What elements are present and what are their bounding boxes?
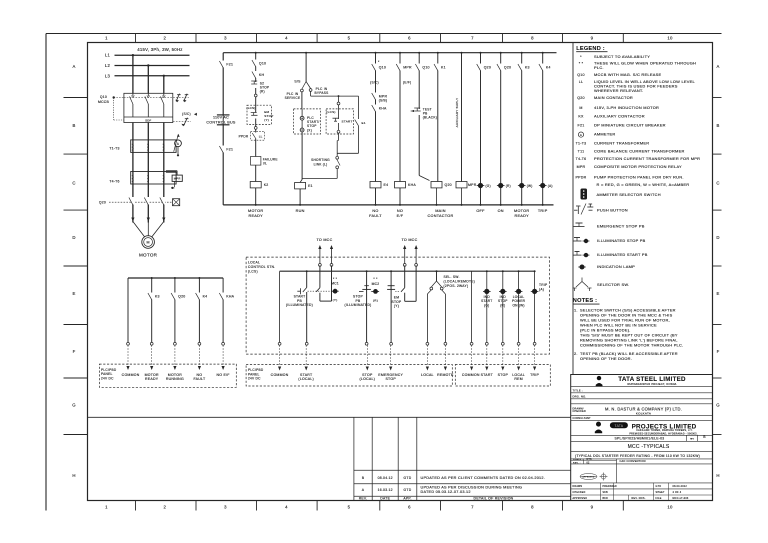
svg-text:Q10: Q10 <box>259 62 266 66</box>
svg-text:415V, 3Ph, 3W, 50Hz: 415V, 3Ph, 3W, 50Hz <box>137 47 182 52</box>
MCCB trip releases (S/C) <box>124 97 189 99</box>
svg-text:SUBJECT TO AVAILABILITY: SUBJECT TO AVAILABILITY <box>594 54 650 59</box>
svg-text:MOTOR: MOTOR <box>514 209 529 213</box>
svg-text:KHA: KHA <box>408 183 416 187</box>
svg-text:SKB: SKB <box>603 492 609 494</box>
title block lower cells <box>571 459 617 461</box>
svg-text:CHECKED: CHECKED <box>573 410 586 413</box>
svg-text:(LCS): (LCS) <box>246 106 255 110</box>
svg-text:9: 9 <box>591 504 594 509</box>
svg-text:08.04.12: 08.04.12 <box>378 476 393 480</box>
svg-text:rev: rev <box>690 436 695 440</box>
svg-text:NO: NO <box>372 209 378 213</box>
svg-text:SHEET: SHEET <box>656 491 666 494</box>
PLC/PBD panel box (LCS left) <box>246 365 452 387</box>
svg-text:7: 7 <box>471 504 474 509</box>
svg-text:(LOCAL): (LOCAL) <box>298 377 314 381</box>
svg-text:CONTROL BUS: CONTROL BUS <box>206 121 236 125</box>
Q20 coil box <box>173 199 180 206</box>
svg-text:SDF: SDF <box>145 118 151 122</box>
svg-text:F21: F21 <box>226 63 233 67</box>
svg-text:E4: E4 <box>384 183 389 187</box>
svg-text:(A): (A) <box>539 288 544 292</box>
svg-text:5: 5 <box>348 36 351 41</box>
svg-text:T4-T6: T4-T6 <box>576 157 587 161</box>
control bus top <box>223 52 556 54</box>
run branch left wire to coil <box>301 132 303 180</box>
svg-text:9: 9 <box>591 36 594 41</box>
svg-text:A: A <box>716 64 719 69</box>
svg-text:(G): (G) <box>486 184 491 188</box>
svg-text:MCC -TYPICALS: MCC -TYPICALS <box>628 444 670 450</box>
svg-text:OFF: OFF <box>476 209 485 213</box>
svg-text:MOTOR: MOTOR <box>139 253 158 258</box>
svg-text:REV. :: REV. : <box>573 462 581 464</box>
motor M <box>142 236 155 249</box>
svg-text:KX: KX <box>578 115 584 119</box>
svg-text:1.: 1. <box>574 307 578 312</box>
svg-text:REV.: REV. <box>359 497 368 501</box>
svg-text:6: 6 <box>408 36 411 41</box>
svg-text:Q20: Q20 <box>577 96 585 100</box>
svg-text:KHA: KHA <box>379 107 387 111</box>
svg-text:NOTES :: NOTES : <box>573 298 597 304</box>
svg-text:SELECTOR SW.: SELECTOR SW. <box>597 282 629 287</box>
svg-text:PLC.: PLC. <box>594 65 604 70</box>
svg-text:(Y): (Y) <box>394 304 399 308</box>
stop pb illuminated <box>366 270 368 272</box>
branch E4 no fault <box>375 53 377 205</box>
svg-text:TO MCC: TO MCC <box>402 238 418 242</box>
svg-text:MC2: MC2 <box>372 282 380 286</box>
svg-text:MCC-LT-003: MCC-LT-003 <box>673 497 689 500</box>
svg-text:(LOCAL/REMOTE): (LOCAL/REMOTE) <box>444 280 476 284</box>
svg-text:TRIP: TRIP <box>530 373 539 377</box>
svg-text:SPL/SP/023/HBM/01/ELE-03: SPL/SP/023/HBM/01/ELE-03 <box>615 436 665 440</box>
LCS bus <box>280 270 535 272</box>
svg-text:ON (W): ON (W) <box>512 303 524 307</box>
approval stamp <box>580 473 608 481</box>
svg-text:Q10: Q10 <box>379 66 386 70</box>
svg-text:AMMETER: AMMETER <box>594 132 615 137</box>
svg-text:T1-T3: T1-T3 <box>576 142 587 146</box>
svg-text:ILLUMINATED STOP PB: ILLUMINATED STOP PB <box>597 238 646 243</box>
svg-text:S/S: S/S <box>294 80 301 84</box>
svg-text:TRIP: TRIP <box>539 283 548 287</box>
stop pb S2 <box>255 82 257 88</box>
svg-text:24V DC: 24V DC <box>101 376 114 380</box>
lamp MC2 <box>372 289 379 294</box>
svg-text:M: M <box>579 106 582 110</box>
svg-text:MCCB: MCCB <box>98 100 109 104</box>
svg-text:LOCAL: LOCAL <box>248 261 260 265</box>
wires MCCB to CTs <box>132 123 134 223</box>
svg-text:(ILLUMINATED): (ILLUMINATED) <box>344 303 371 307</box>
legend illuminated start symbol <box>573 254 582 256</box>
coil Q20 main contactor <box>431 182 442 188</box>
svg-text:COMMON: COMMON <box>122 373 140 377</box>
branch E1 run with S/S selector <box>305 53 307 82</box>
svg-text:MPR: MPR <box>577 165 586 169</box>
svg-text:DATED 05.03.12-07.03.12: DATED 05.03.12-07.03.12 <box>421 490 471 494</box>
svg-text:CHECKED: CHECKED <box>573 492 586 494</box>
svg-text:DP MINIATURE CIRCUIT BREAKER: DP MINIATURE CIRCUIT BREAKER <box>594 123 666 128</box>
ladder branch common <box>127 278 129 343</box>
ladder branch K3 <box>151 278 153 343</box>
legend push button symbol <box>574 209 578 211</box>
svg-text:GTD: GTD <box>404 488 412 492</box>
branch Q20 main contactor <box>418 53 420 176</box>
phase droppers <box>132 55 134 93</box>
svg-text:START: START <box>481 373 494 377</box>
svg-text:Q10: Q10 <box>577 73 585 77</box>
svg-text:DATE: DATE <box>380 497 390 501</box>
svg-text:2: 2 <box>163 504 166 509</box>
svg-text:7: 7 <box>471 36 474 41</box>
LCS terminal drops <box>279 345 281 366</box>
svg-text:K1: K1 <box>441 66 446 70</box>
svg-text:TATA STEEL LIMITED: TATA STEEL LIMITED <box>618 376 686 383</box>
svg-text:SCALE :: SCALE : <box>573 458 583 461</box>
svg-text:KHA: KHA <box>226 295 234 299</box>
selector switch local/remote <box>436 271 438 281</box>
svg-text:I/L: I/L <box>263 161 267 165</box>
svg-text:(LCS): (LCS) <box>248 270 258 274</box>
ladder branch Q20 <box>174 278 176 343</box>
feeder arrows to motor <box>131 218 134 222</box>
svg-text:(E/F): (E/F) <box>403 81 411 85</box>
svg-text:H: H <box>72 473 75 478</box>
svg-text:3: 3 <box>224 36 227 41</box>
test pb black <box>418 109 420 115</box>
breaker pole <box>132 93 134 96</box>
svg-text:(W): (W) <box>527 184 533 188</box>
svg-text:(X): (X) <box>307 128 312 132</box>
legend illuminated stop symbol <box>573 240 582 242</box>
PLC/PBD panel box (left) <box>99 364 236 387</box>
svg-text:COMMISSIONING OF THE MOTOR THR: COMMISSIONING OF THE MOTOR THROUGH PLC. <box>580 342 683 347</box>
svg-text:FILE: FILE <box>656 497 662 500</box>
svg-text:(ILLUMINATED): (ILLUMINATED) <box>286 303 313 307</box>
svg-text:NTS: NTS <box>587 459 593 461</box>
svg-text:(Y): (Y) <box>333 298 338 302</box>
svg-text:COMPOSITE MOTOR PROTECTION REL: COMPOSITE MOTOR PROTECTION RELAY <box>594 164 682 169</box>
ladder branch KHA <box>222 278 224 343</box>
separator line <box>88 416 571 418</box>
svg-text:COMMON: COMMON <box>271 373 289 377</box>
svg-text:MCCB WITH MAG. S/C RELEASE: MCCB WITH MAG. S/C RELEASE <box>594 72 661 77</box>
svg-text:TO MCC: TO MCC <box>317 238 333 242</box>
svg-text:MPR: MPR <box>403 66 412 70</box>
svg-text:2: 2 <box>163 36 166 41</box>
breaker pole <box>163 93 165 96</box>
svg-text:3: 3 <box>224 504 227 509</box>
revision table <box>353 417 355 500</box>
svg-text:STOP: STOP <box>498 373 509 377</box>
sheet outer border <box>45 34 47 511</box>
legend emergency stop symbol <box>574 226 585 228</box>
lamp branch TRIP <box>542 53 544 205</box>
svg-text:REV. NOS.: REV. NOS. <box>632 497 646 500</box>
svg-text:TRIP: TRIP <box>538 209 548 213</box>
svg-text:(G): (G) <box>484 303 489 307</box>
svg-text:BKD: BKD <box>603 498 609 500</box>
svg-text:T11: T11 <box>578 149 585 153</box>
svg-text:LOCAL: LOCAL <box>421 373 434 377</box>
lamp branch OFF <box>480 53 482 205</box>
svg-text:08.04.2012: 08.04.2012 <box>673 485 688 488</box>
svg-text:MAIN CONTACTOR: MAIN CONTACTOR <box>594 95 633 100</box>
svg-text:MOTOR: MOTOR <box>248 209 263 213</box>
svg-text:E1: E1 <box>308 184 313 188</box>
svg-text:APPROVED: APPROVED <box>573 497 588 500</box>
svg-text:MPR: MPR <box>468 183 477 187</box>
svg-text:AUXILIARY SUPLY: AUXILIARY SUPLY <box>455 98 459 128</box>
svg-text:MAIN: MAIN <box>435 209 446 213</box>
svg-text:(Y): (Y) <box>264 118 269 122</box>
svg-text:(BLACK): (BLACK) <box>423 116 437 120</box>
svg-text:RUPNARAINPUR PROJECT, DOSNA: RUPNARAINPUR PROJECT, DOSNA <box>627 383 676 386</box>
svg-text:SEL. SW.: SEL. SW. <box>444 275 460 279</box>
svg-text:MPR: MPR <box>174 177 181 181</box>
svg-text:C: C <box>72 181 75 186</box>
svg-text:APPROVED: APPROVED <box>583 476 595 479</box>
svg-text:F21: F21 <box>226 148 233 152</box>
svg-text:INDICATION LAMP: INDICATION LAMP <box>597 264 635 269</box>
svg-text:AUXILIARY CONTACTOR: AUXILIARY CONTACTOR <box>594 114 645 119</box>
start risers and seal loop <box>319 266 321 288</box>
svg-text:G: G <box>716 403 720 408</box>
svg-text:AMMETER SELECTOR SWITCH: AMMETER SELECTOR SWITCH <box>597 192 661 197</box>
svg-text:E: E <box>716 291 719 296</box>
svg-text:D: D <box>716 235 719 240</box>
svg-text:THESE WILL GLOW WHEN OPERATED: THESE WILL GLOW WHEN OPERATED THROUGH <box>594 61 696 66</box>
svg-text:C: C <box>716 181 719 186</box>
tata projects logo <box>596 422 601 427</box>
svg-text:A: A <box>580 133 582 137</box>
svg-text:CONSULTANT: CONSULTANT <box>573 417 592 420</box>
LCS indication lamps <box>471 271 473 342</box>
svg-text:6: 6 <box>408 504 411 509</box>
branch KHA no E/F <box>399 53 401 205</box>
svg-text:D: D <box>72 235 75 240</box>
svg-text:CORE BALANCE CURRENT TRANSFORM: CORE BALANCE CURRENT TRANSFORMER <box>594 148 685 153</box>
svg-text:B: B <box>716 123 719 128</box>
EM stop dashed box <box>247 105 271 124</box>
svg-text:10: 10 <box>667 36 673 41</box>
svg-text:PPDR: PPDR <box>239 135 249 139</box>
svg-text:EMERGENCY STOP PB: EMERGENCY STOP PB <box>597 224 645 229</box>
svg-text:* *: * * <box>579 62 584 66</box>
svg-text:DRG. NO.: DRG. NO. <box>573 394 587 398</box>
ladder branch K4 <box>198 278 200 343</box>
svg-text:K3: K3 <box>525 66 530 70</box>
svg-text:Q20: Q20 <box>178 295 185 299</box>
svg-text:(R): (R) <box>260 89 265 93</box>
LCS start dashed box <box>326 109 353 134</box>
svg-text:(LCS): (LCS) <box>326 110 335 114</box>
svg-text:GTD: GTD <box>656 485 662 488</box>
svg-text:L2: L2 <box>105 63 111 68</box>
svg-text:MC1: MC1 <box>331 282 339 286</box>
shorting link <box>338 133 340 140</box>
svg-text:REMOTE: REMOTE <box>437 373 454 377</box>
em stop pb <box>390 270 392 272</box>
PPDR LL contact box <box>251 131 265 140</box>
lamp branch ON <box>500 53 502 205</box>
svg-text:H: H <box>716 473 719 478</box>
svg-text:R = RED, G = GREEN, W = WHITE,: R = RED, G = GREEN, W = WHITE, A=AMBER <box>597 182 690 187</box>
svg-text:PPDR: PPDR <box>576 176 587 180</box>
legend ammeter symbol <box>578 132 583 137</box>
ammeter A <box>175 140 182 147</box>
svg-text:(S/B): (S/B) <box>379 99 388 103</box>
svg-text:L3: L3 <box>105 73 111 78</box>
svg-text:DETAIL OF REVISION: DETAIL OF REVISION <box>474 497 514 501</box>
svg-text:* *: * * <box>373 277 378 281</box>
svg-text:A: A <box>72 64 75 69</box>
svg-text:K2: K2 <box>264 183 269 187</box>
drawing frame <box>88 43 713 501</box>
svg-text:CONTACTOR: CONTACTOR <box>428 214 454 218</box>
branch MPR auxiliary supply <box>461 53 463 182</box>
coil E1 <box>295 183 306 189</box>
svg-text:K3: K3 <box>155 295 160 299</box>
svg-text:START: START <box>342 120 353 124</box>
svg-text:4: 4 <box>285 504 288 509</box>
svg-text:WHEREVER RELEVANT.: WHEREVER RELEVANT. <box>594 88 644 93</box>
PLC start/stop dashed box <box>301 92 303 109</box>
svg-text:02: 02 <box>587 462 591 464</box>
svg-text:K4: K4 <box>203 295 208 299</box>
legend box <box>572 43 574 375</box>
svg-text:RUNNING: RUNNING <box>166 377 184 381</box>
svg-text:Q10: Q10 <box>100 95 107 99</box>
svg-text:NO: NO <box>397 209 403 213</box>
svg-text:LL: LL <box>259 135 263 139</box>
svg-text:TITLE :: TITLE : <box>573 388 583 392</box>
svg-text:UPDATED AS PER DISCUSSION: UPDATED AS PER DISCUSSION DURING MEETING <box>421 486 523 490</box>
svg-text:TATA: TATA <box>615 424 624 428</box>
svg-text:B: B <box>72 123 75 128</box>
svg-text:PUMP PROTECTION PANEL FOR DRY: PUMP PROTECTION PANEL FOR DRY RUN. <box>594 175 684 180</box>
svg-text:COMMON: COMMON <box>462 373 480 377</box>
svg-text:PROTECTION CURRENT TRANSFORMER: PROTECTION CURRENT TRANSFORMER FOR MPR <box>594 156 700 161</box>
svg-text:K4: K4 <box>546 66 551 70</box>
svg-text:4: 4 <box>285 36 288 41</box>
svg-text:L1: L1 <box>105 53 111 58</box>
svg-text:(R): (R) <box>500 303 505 307</box>
svg-text:KOLKATA: KOLKATA <box>636 411 651 415</box>
svg-text:F21: F21 <box>578 124 585 128</box>
lamp MC1 <box>332 289 339 294</box>
svg-text:M: M <box>146 241 149 245</box>
svg-text:8: 8 <box>531 36 534 41</box>
svg-text:NO E/F: NO E/F <box>217 373 230 377</box>
svg-text:CONTROL STN.: CONTROL STN. <box>248 265 275 269</box>
PLC/PBD panel box (LCS right) <box>455 365 550 387</box>
title block <box>571 375 713 501</box>
branch K2 motor ready <box>255 53 257 205</box>
svg-text:KH: KH <box>259 73 265 77</box>
svg-text:FAULT: FAULT <box>193 377 205 381</box>
svg-text:STOP: STOP <box>385 377 396 381</box>
svg-text:(LOCAL): (LOCAL) <box>360 377 376 381</box>
svg-text:PUSH BUTTON: PUSH BUTTON <box>597 208 628 213</box>
svg-text:CURRENT TRANSFORMER: CURRENT TRANSFORMER <box>594 141 649 146</box>
svg-text:G: G <box>72 403 76 408</box>
start pb illuminated <box>306 270 308 272</box>
svg-text:E/F: E/F <box>397 214 404 218</box>
svg-text:CAD CONVENTION: CAD CONVENTION <box>620 460 646 463</box>
legend ammeter selector switch symbol <box>581 189 588 200</box>
svg-text:(S/C): (S/C) <box>182 112 191 116</box>
svg-text:UPDATED AS PER CLIENT COMM: UPDATED AS PER CLIENT COMMENTS DATED ON … <box>421 476 546 480</box>
em stop risers and loop <box>404 266 406 288</box>
svg-text:OPENING OF THE DOOR.: OPENING OF THE DOOR. <box>580 356 632 361</box>
svg-text:Q10: Q10 <box>422 66 429 70</box>
svg-text:10: 10 <box>667 504 673 509</box>
svg-text:(TYPICAL DOL STARTER FEEDER RA: (TYPICAL DOL STARTER FEEDER RATING - FRO… <box>575 454 700 458</box>
svg-text:LEGEND :: LEGEND : <box>576 46 605 52</box>
breaker pole <box>147 93 149 96</box>
svg-text:(R): (R) <box>506 184 511 188</box>
svg-text:E: E <box>72 291 75 296</box>
svg-text:READY: READY <box>249 214 264 218</box>
failure interlock <box>251 157 261 166</box>
svg-text:ON: ON <box>498 209 504 213</box>
svg-text:(2POS. 2WAY): (2POS. 2WAY) <box>444 284 469 288</box>
svg-text:16.03.12: 16.03.12 <box>378 488 393 492</box>
svg-text:Q20: Q20 <box>504 66 511 70</box>
svg-text:* *: * * <box>333 277 338 281</box>
svg-text:REM: REM <box>514 377 523 381</box>
svg-text:T1-T3: T1-T3 <box>109 147 119 151</box>
svg-text:F: F <box>717 349 720 354</box>
svg-text:Q20: Q20 <box>484 66 491 70</box>
svg-text:ILLUMINATED START PB: ILLUMINATED START PB <box>597 252 648 257</box>
svg-text:GTD: GTD <box>404 476 412 480</box>
svg-text:READY: READY <box>515 214 530 218</box>
local control station dashed box <box>246 257 549 354</box>
selector S/S contacts <box>302 82 306 90</box>
svg-text:Q20: Q20 <box>99 201 106 205</box>
MPR relay box <box>166 170 177 172</box>
svg-text:DRAWN: DRAWN <box>573 485 583 488</box>
svg-text:LINK (L): LINK (L) <box>314 162 328 166</box>
svg-text:LL: LL <box>579 80 584 84</box>
svg-text:PREPARED: PREPARED <box>603 485 618 488</box>
svg-text:(A): (A) <box>548 184 553 188</box>
svg-text:SERVICE: SERVICE <box>285 96 301 100</box>
svg-text:READY: READY <box>145 377 159 381</box>
svg-text:2.: 2. <box>574 351 578 356</box>
bypass wire to LCS start box <box>310 92 312 97</box>
svg-text:110V AC: 110V AC <box>213 115 229 119</box>
svg-text:APP.: APP. <box>403 497 411 501</box>
svg-text:8: 8 <box>531 504 534 509</box>
control bus left riser with F21 <box>222 53 224 205</box>
svg-text:Q20: Q20 <box>445 183 452 187</box>
svg-text:24V DC: 24V DC <box>248 377 261 381</box>
svg-text:(S/C): (S/C) <box>370 81 379 85</box>
svg-text:FAULT: FAULT <box>369 214 382 218</box>
legend selector switch symbol <box>581 278 583 282</box>
svg-text:KAKILAND TOWER, RAIPURA TOWERS: KAKILAND TOWER, RAIPURA TOWERS, J.T. <box>636 429 692 432</box>
svg-text:E1: E1 <box>362 121 366 125</box>
svg-text:BYPASS: BYPASS <box>314 91 328 95</box>
lamp branch MOTOR <box>521 53 523 205</box>
